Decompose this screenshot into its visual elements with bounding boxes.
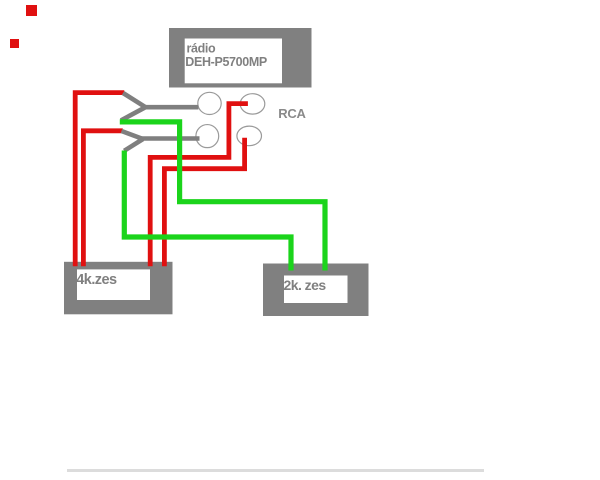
svg-text:rádio: rádio [187, 42, 217, 56]
RCA jack J1 (top-left circle) [198, 92, 221, 114]
svg-text:4k.zes: 4k.zes [76, 272, 117, 288]
wire red W4 (from jack J4 to 4k.zes) [164, 138, 244, 266]
wire green W5 (from fork Y1 to 2k. zes) [120, 122, 325, 271]
amplifier box A1 (4k.zes) [64, 262, 173, 315]
amplifier box A2 (2k. zes) [263, 264, 369, 317]
svg-text:2k. zes: 2k. zes [284, 277, 327, 293]
wire red W3 (from jack J2 to 4k.zes) [150, 104, 248, 267]
head unit box U1 (radio DEH-P5700MP) [169, 28, 312, 88]
svg-text:DEH-P5700MP: DEH-P5700MP [185, 55, 267, 69]
svg-text:RCA: RCA [278, 106, 306, 121]
splitter fork Y2 (gray, into jack J3) [122, 131, 200, 151]
artifact red square 1 (top-left) [26, 5, 37, 16]
wire red W2 (left inner, to 4k.zes) [83, 131, 122, 266]
RCA jack J4 (bottom-right circle) [237, 126, 262, 146]
splitter fork Y1 (gray, into jack J1) [121, 93, 198, 120]
artifact gray strip (bottom) [67, 469, 484, 472]
artifact red square 2 (top-left) [10, 39, 19, 48]
RCA jack J2 (top-right circle) [240, 94, 265, 114]
wire red W1 (left outer, to 4k.zes) [75, 93, 124, 267]
wire green W6 (from fork Y2 to 2k. zes) [124, 151, 291, 271]
RCA jack J3 (bottom-left circle) [196, 125, 219, 148]
